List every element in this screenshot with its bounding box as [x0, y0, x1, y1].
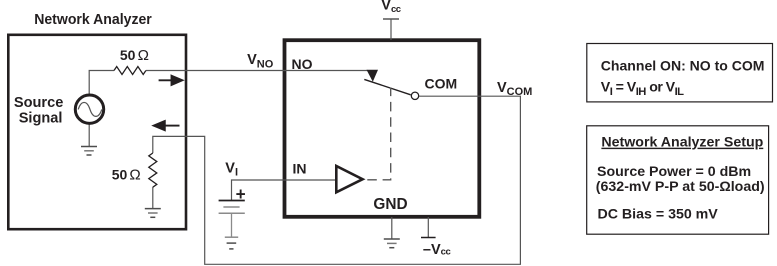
svg-text:VI = VIH or VIL: VI = VIH or VIL: [601, 80, 684, 99]
svg-text:Ω: Ω: [138, 47, 149, 64]
svg-text:NO: NO: [292, 56, 313, 72]
svg-text:Network Analyzer Setup: Network Analyzer Setup: [601, 135, 763, 151]
svg-text:GND: GND: [373, 196, 407, 213]
svg-text:Source: Source: [14, 95, 63, 111]
svg-text:VNO: VNO: [247, 52, 274, 70]
svg-text:Network Analyzer: Network Analyzer: [34, 11, 152, 28]
svg-text:Ω: Ω: [129, 166, 140, 183]
svg-text:VI: VI: [225, 161, 238, 179]
svg-text:–Vcc: –Vcc: [423, 242, 452, 258]
svg-text:VCOM: VCOM: [497, 80, 532, 98]
svg-text:Signal: Signal: [19, 110, 63, 126]
svg-text:IN: IN: [293, 161, 307, 177]
svg-text:50: 50: [120, 47, 136, 63]
svg-text:(632-mV P-P at 50-Ωload): (632-mV P-P at 50-Ωload): [596, 179, 765, 195]
svg-text:COM: COM: [425, 76, 458, 92]
svg-text:Channel ON: NO to COM: Channel ON: NO to COM: [601, 59, 765, 75]
svg-text:Source Power = 0 dBm: Source Power = 0 dBm: [597, 164, 751, 180]
svg-text:DC Bias = 350 mV: DC Bias = 350 mV: [598, 206, 719, 222]
svg-text:50: 50: [112, 166, 128, 182]
svg-text:Vcc: Vcc: [381, 0, 402, 15]
